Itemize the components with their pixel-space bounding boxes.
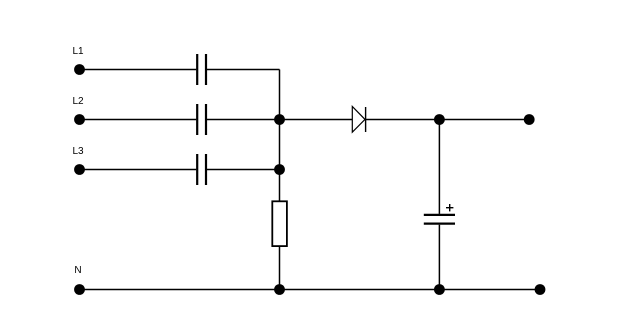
- wire diode to node: [366, 119, 440, 121]
- wire L2 right: [207, 119, 280, 121]
- wire L2 left: [80, 119, 197, 121]
- node junction L3: [274, 164, 285, 175]
- wire L1 corner down: [279, 70, 281, 120]
- wire resistor to N rail: [279, 246, 281, 289]
- diode D1: [352, 107, 365, 133]
- svg-text:L3: L3: [73, 146, 85, 157]
- node capacitor branch top: [434, 114, 445, 125]
- svg-text:L1: L1: [73, 46, 85, 57]
- terminal N: [74, 284, 85, 295]
- wire to output terminal: [439, 119, 529, 121]
- wire N rail: [80, 289, 541, 291]
- wire L1 right: [207, 69, 280, 71]
- wire L1 left: [80, 69, 197, 71]
- wire L3 left: [80, 169, 197, 171]
- polarity plus sign: [446, 204, 453, 211]
- capacitor C4 polarized: [424, 215, 455, 224]
- svg-text:L2: L2: [73, 96, 85, 107]
- node resistor bottom: [274, 284, 285, 295]
- terminal L1: [74, 64, 85, 75]
- resistor R1: [272, 201, 287, 246]
- node junction L2: [274, 114, 285, 125]
- node capacitor bottom: [434, 284, 445, 295]
- wire node down to capacitor: [438, 120, 440, 214]
- terminal output plus: [524, 114, 535, 125]
- capacitor C2: [197, 104, 206, 135]
- terminal L3: [74, 164, 85, 175]
- wire node to diode: [280, 119, 353, 121]
- terminal L2: [74, 114, 85, 125]
- wire L3 right: [207, 169, 280, 171]
- wire join column: [279, 120, 281, 201]
- svg-text:N: N: [74, 265, 81, 276]
- terminal N right: [535, 284, 546, 295]
- capacitor C3: [197, 154, 206, 185]
- wire capacitor to N rail: [438, 225, 440, 290]
- capacitor C1: [197, 54, 206, 85]
